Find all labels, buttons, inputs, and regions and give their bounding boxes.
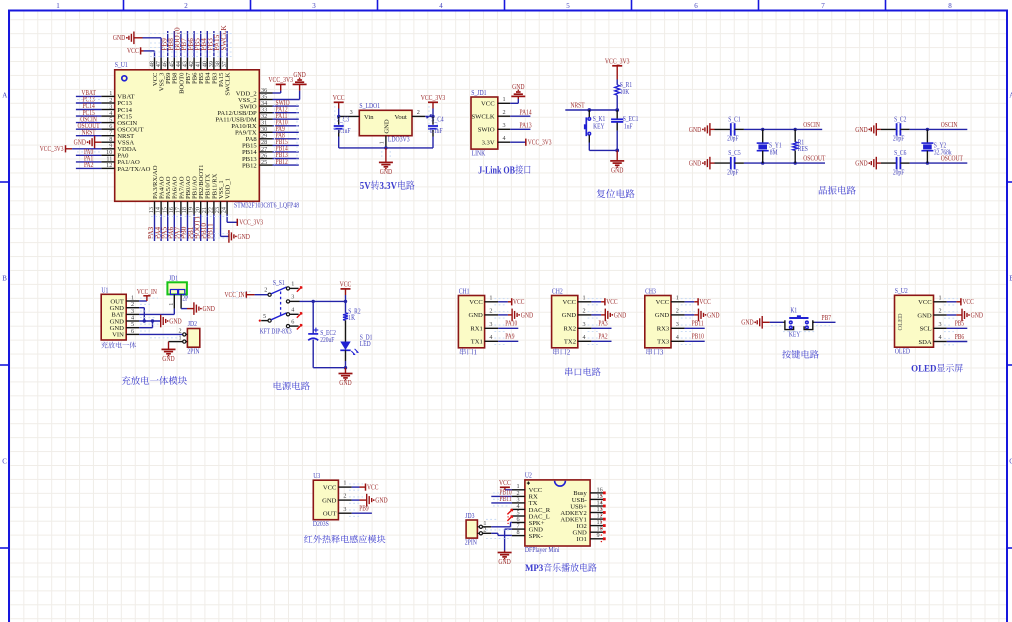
net label PB5 (193, 38, 201, 51)
IC S_LDO1 LDO3V3 body (359, 110, 412, 135)
value KEY (789, 332, 800, 339)
U1 pin 35 VSS_2 (238, 93, 273, 104)
svg-text:S_C2: S_C2 (894, 116, 907, 123)
svg-text:2: 2 (264, 287, 267, 294)
designator S_R2 (348, 309, 361, 316)
S1 pin 5 (261, 313, 268, 321)
U1 charge pin 5 GND (110, 321, 139, 332)
U1 pin 40 PB4 (201, 58, 211, 84)
wire PB8 (173, 31, 175, 58)
svg-text:GND: GND (322, 497, 337, 504)
value 2PIN MP3 (465, 539, 477, 547)
wire VCC_3V3 stem (432, 102, 434, 116)
net label PA9 (505, 334, 515, 341)
designator S_D1 (360, 335, 373, 342)
svg-text:CH3: CH3 (645, 287, 656, 295)
svg-text:LINK: LINK (472, 149, 486, 157)
svg-text:U2: U2 (525, 472, 532, 480)
power label VCC_IN (225, 291, 247, 299)
svg-text:S_R1: S_R1 (620, 82, 632, 89)
snap dashes power (232, 292, 252, 299)
designator S_LDO1 (359, 102, 380, 110)
svg-text:6: 6 (694, 2, 698, 10)
U2 OLED pin 2 GND (917, 308, 946, 320)
svg-text:VCC: VCC (699, 299, 711, 306)
U2 pin 2 RX (512, 490, 538, 501)
net label PA13 (520, 122, 533, 129)
wire Vout to VCC_3V3 node (425, 114, 434, 118)
designator JD3 (465, 512, 475, 520)
svg-text:GND: GND (162, 355, 174, 363)
wire PC14 (76, 109, 101, 111)
svg-text:8: 8 (516, 529, 519, 536)
svg-text:2: 2 (502, 109, 505, 116)
svg-text:1: 1 (178, 335, 181, 342)
no-connect S1 pin1 (297, 286, 302, 291)
value KFT DIP-8X3 (260, 328, 292, 335)
U2 pin 3 TX (512, 496, 538, 507)
svg-text:1: 1 (291, 280, 294, 287)
no-connect U2 pin 12 (601, 518, 606, 523)
svg-text:4: 4 (489, 334, 492, 341)
wire PB12 (273, 164, 299, 166)
ground S_C5 (689, 157, 710, 170)
wire PA10 (498, 327, 518, 329)
LDO pin 3 Vin (339, 109, 359, 116)
svg-text:GND: GND (855, 126, 867, 134)
LDO pin 2 Vout (412, 109, 425, 116)
wire PB6 (947, 341, 968, 343)
svg-text:JD1: JD1 (169, 274, 179, 282)
U1 pin 7 NRST (101, 130, 134, 141)
designator S_EC2 (320, 330, 336, 337)
no-connect U2 pin 9 (601, 537, 606, 542)
S1 pin 2 number (264, 287, 267, 294)
designator K1 (790, 308, 797, 315)
snap dashes U1 right (275, 104, 298, 167)
wire U3 GND (352, 499, 367, 501)
svg-text:20pF: 20pF (727, 169, 739, 176)
title charge module (122, 376, 187, 385)
JD3 pin 2 (477, 526, 486, 535)
no-connect U2 pin 13 (601, 511, 606, 516)
net label OSCOUT (78, 123, 101, 130)
U1 pin 14 PA4/AO (155, 176, 166, 214)
svg-text:JD3: JD3 (465, 512, 475, 520)
wire VCC stem (345, 289, 347, 302)
U1 pin 32 PA11/USB/DM (215, 113, 272, 124)
wire PB14 (273, 151, 299, 153)
U1 pin 45 PB8 (168, 58, 178, 84)
svg-text:PB11: PB11 (207, 223, 215, 239)
svg-text:PA2/TX/AO: PA2/TX/AO (117, 166, 150, 173)
wire PA6 (173, 215, 175, 242)
value serial 1 (460, 348, 478, 356)
designator S_C2 (894, 116, 907, 123)
title crystal circuit (819, 186, 856, 195)
ground MP3 (498, 553, 512, 567)
svg-text:2: 2 (178, 328, 181, 335)
U1 pin 30 PA9/TX (235, 126, 273, 137)
value 32.768k (934, 149, 952, 156)
svg-text:VCC: VCC (962, 299, 974, 306)
svg-text:VCC_IN: VCC_IN (137, 289, 157, 296)
svg-text:MP3: MP3 (525, 563, 544, 573)
svg-text:GND: GND (917, 312, 932, 319)
wire PB11 (213, 215, 215, 242)
snap dashes U1 left (77, 100, 101, 152)
U1 pin 15 PA5/AO (161, 176, 172, 214)
ground at U1 pin 8 (74, 136, 95, 149)
U2 pin 14 USB+ (570, 499, 603, 510)
designator S_U1 (115, 61, 129, 69)
svg-text:VCC: VCC (127, 47, 139, 55)
svg-text:VCC_3V3: VCC_3V3 (421, 94, 446, 102)
U1 pin 37 SWCLK (221, 58, 231, 96)
net label PC13 (82, 97, 95, 104)
svg-text:PA10: PA10 (505, 321, 518, 328)
designator S_C4 (431, 117, 444, 124)
svg-text:9: 9 (597, 532, 600, 539)
ground S_C6 (855, 157, 876, 170)
net label PC14 (82, 103, 95, 110)
svg-text:1: 1 (489, 294, 492, 301)
svg-text:2: 2 (938, 308, 941, 315)
designator S_S1 (273, 280, 285, 287)
power symbol VCC (333, 94, 345, 102)
net label PB6 (955, 334, 965, 341)
svg-text:OLED: OLED (895, 347, 910, 355)
designator U3 (313, 472, 320, 480)
U1 charge pin 2 GND (110, 301, 139, 312)
U1 pin 28 PB15 (242, 139, 272, 150)
wire PA1 (76, 161, 101, 163)
svg-text:0.1uF: 0.1uF (338, 128, 351, 135)
key S_K1 KEY (584, 110, 591, 143)
designator U2 (525, 472, 532, 480)
value 20pF (893, 136, 905, 143)
CH3 pin 3 RX3 (657, 321, 685, 333)
title 5V to 3.3V (360, 180, 415, 192)
value 20pF (893, 169, 905, 176)
ground reset (610, 161, 624, 175)
svg-text:4: 4 (938, 334, 941, 341)
ground LDO (379, 162, 393, 176)
value KEY (593, 123, 604, 130)
svg-text:7: 7 (821, 2, 825, 10)
svg-text:RX1: RX1 (470, 326, 482, 333)
svg-text:JD2: JD2 (188, 320, 198, 328)
wire PB11 (685, 327, 705, 329)
CH1 pin 1 VCC (469, 294, 498, 306)
net label PA6 (167, 226, 175, 239)
wire PB9 (352, 512, 372, 514)
net label PB9 (359, 506, 369, 513)
U2 OLED pin 4 SDA (918, 334, 946, 346)
value 2P (182, 295, 188, 302)
U1 pin 13 PA3/RX/AO (148, 165, 159, 214)
svg-text:S_K1: S_K1 (593, 116, 606, 123)
wire JD1 pin2 to ground (181, 308, 187, 310)
net label SWIO (276, 100, 290, 107)
svg-text:GND: GND (113, 34, 125, 42)
value DFPlayer Mini (525, 546, 560, 554)
wire U3 VCC (352, 486, 366, 488)
svg-text:12: 12 (106, 162, 112, 169)
svg-text:4: 4 (502, 135, 505, 142)
wire PB1 (193, 215, 195, 242)
designator S_EC1 (623, 116, 639, 123)
svg-text:25: 25 (261, 159, 267, 166)
power label VCC_IN charge (137, 289, 157, 296)
U1 pin 21 PB10/TX (201, 173, 212, 214)
snap dashes U1 top (150, 34, 233, 57)
svg-text:RES: RES (798, 146, 808, 153)
net label PA3 (598, 321, 608, 328)
wire switch out (300, 300, 348, 303)
ground right of U1 (293, 71, 307, 85)
wire PB5 (947, 327, 968, 329)
wire PA15 (220, 31, 222, 58)
wire VCC to U1 pin 48 (141, 51, 155, 58)
wire PB9 (167, 31, 169, 58)
svg-text:VCC: VCC (562, 299, 576, 306)
net label PA10 (276, 120, 289, 127)
U1 pin 23 VSS_1 (214, 180, 225, 214)
JD2 pin 2 (178, 328, 187, 337)
svg-text:S_C6: S_C6 (894, 150, 907, 157)
svg-text:24: 24 (221, 207, 228, 213)
wire SWIO (273, 105, 299, 107)
svg-text:2: 2 (567, 348, 571, 356)
wire CH2 VCC (591, 301, 605, 303)
U1 pin 17 PA7/AO (175, 176, 186, 214)
wire OLED GND (947, 314, 962, 316)
wire PA3 (154, 215, 156, 242)
power label VCC U3 (366, 484, 379, 492)
CH1 pin 2 GND (469, 308, 499, 320)
svg-text:LED: LED (360, 341, 371, 348)
no-connect U2 pin 10 (601, 531, 606, 536)
svg-text:VCC_3V3: VCC_3V3 (40, 146, 64, 153)
net label PB0 (180, 226, 188, 239)
wire PA9 (498, 340, 518, 342)
value LED (360, 341, 371, 348)
designator S_C6 (894, 150, 907, 157)
ground OLED (962, 309, 983, 322)
net label OSCOUT right (941, 156, 964, 163)
wire K1 to ground rail (589, 143, 619, 153)
wire PA2 (76, 167, 101, 169)
svg-text:0.1uF: 0.1uF (430, 128, 443, 135)
wire PA14 (510, 115, 530, 117)
power symbol VCC MP3 (499, 479, 511, 487)
svg-text:VCC_3V3: VCC_3V3 (268, 76, 293, 84)
IC U3 D203S body (313, 480, 338, 520)
snap dashes CH1 (494, 299, 508, 345)
net label OSCIN (803, 122, 820, 129)
U1 pin 48 VCC (149, 58, 159, 87)
designator S_Y2 (934, 143, 947, 150)
U1 pin 34 SWIO (240, 100, 273, 111)
U1 pin 22 PB11/RX (208, 173, 219, 214)
IC U1 STM32F103C8T6_LQFP48 body (115, 70, 260, 202)
value OLED (895, 347, 910, 355)
value 10K (620, 89, 630, 96)
connector S_JD1 LINK body (471, 97, 498, 149)
power label VCC CH2 (605, 298, 618, 306)
svg-text:U1: U1 (101, 286, 108, 294)
crystal S_Y2 32.768k (921, 129, 933, 163)
U2 pin 13 ADKEY2 (560, 506, 603, 517)
power label VCC CH3 (698, 298, 711, 306)
svg-text:RX3: RX3 (657, 326, 670, 333)
value 220uF (320, 337, 334, 344)
power label VCC_3V3 bottom (237, 219, 263, 227)
svg-text:S_U2: S_U2 (895, 287, 909, 295)
no-connect DAC_R (507, 509, 512, 518)
U1 pin 29 PA8 (246, 133, 273, 144)
net label SWCLK (220, 25, 228, 51)
svg-text:20pF: 20pF (893, 169, 905, 176)
wire bottom rail power (313, 366, 347, 369)
svg-text:PA14: PA14 (520, 109, 533, 116)
svg-text:3.3V: 3.3V (380, 180, 398, 192)
U2 OLED pin 3 SCL (920, 321, 947, 333)
designator U1 (101, 286, 108, 294)
svg-text:GND: GND (375, 497, 387, 505)
wire gnd to key (762, 321, 783, 323)
wire PB7 (187, 31, 189, 58)
svg-text:K1: K1 (790, 308, 797, 315)
U2 pin 10 GND (573, 526, 604, 537)
snap dashes charge (140, 298, 178, 338)
power label VCC_3V3 at U1 pin 9 (40, 145, 66, 153)
U1 pin 41 PB5 (195, 58, 205, 84)
ground power circuit (339, 374, 353, 388)
wire OLED VCC (947, 301, 961, 303)
svg-text:SWCLK: SWCLK (225, 72, 232, 95)
svg-text:B: B (2, 275, 7, 283)
svg-text:GND: GND (689, 126, 701, 134)
svg-text:4: 4 (676, 334, 679, 341)
power label VCC OLED (961, 298, 974, 306)
svg-text:S_C1: S_C1 (728, 116, 740, 123)
value serial 2 (553, 348, 571, 356)
U1 pin 39 PB3 (208, 58, 218, 84)
U1 charge pin 1 OUT (110, 295, 139, 306)
snap dashes CH3 (681, 299, 695, 345)
connector JD1 2P body (167, 282, 187, 294)
net label PB4 (200, 38, 208, 51)
wire OUT to VCC_IN (139, 296, 147, 301)
resistor R1 RES (793, 129, 798, 163)
wire rail to ground (345, 368, 347, 374)
ground CH2 (605, 309, 626, 322)
no-connect DAC_L (507, 516, 512, 525)
net label PB15 (276, 139, 289, 146)
wire OSCOUT right (900, 161, 967, 164)
power label VCC_3V3 JD1 (526, 139, 552, 147)
ground S_C2 (855, 123, 876, 136)
U1 pin 31 PA10/RX (231, 120, 272, 131)
svg-text:GND: GND (293, 71, 305, 79)
wire JD3 pin1 to SPK+ (483, 522, 512, 526)
svg-text:4: 4 (439, 2, 443, 10)
JD1 pin 1 VCC (481, 96, 510, 107)
svg-text:10K: 10K (620, 89, 630, 96)
net label OSCIN (80, 116, 97, 123)
value 20pF (727, 136, 739, 143)
CH3 pin 4 TX3 (657, 334, 684, 346)
net label PA3 (147, 226, 155, 239)
U1 charge pin 3 BAT (111, 308, 139, 319)
ground bottom of U1 (229, 230, 250, 243)
svg-text:PA9: PA9 (505, 334, 515, 341)
LDO pin 1 GND (379, 136, 388, 150)
wire PB10 (685, 340, 705, 342)
designator S_JD1 (471, 89, 487, 97)
svg-text:1uF: 1uF (624, 123, 633, 130)
svg-text:6: 6 (131, 328, 134, 335)
svg-text:VCC: VCC (340, 281, 352, 289)
U1 pin 33 PA12/USB/DP (217, 107, 272, 118)
net label OSCOUT (803, 156, 826, 163)
svg-text:GND: GND (741, 319, 753, 327)
svg-text:PB12: PB12 (276, 159, 289, 166)
wire PA11 (273, 118, 299, 120)
wire PA4 (160, 215, 162, 242)
resistor S_R1 10K (615, 85, 620, 95)
U1 pin 42 PB6 (188, 58, 198, 84)
net label PB11 (207, 223, 215, 239)
wire VCC_IN to switch (246, 294, 268, 296)
wire PB10 (206, 215, 208, 242)
CH1 pin 4 TX1 (471, 334, 498, 346)
no-connect S1 pin6 (297, 324, 302, 329)
wire VDD_1 to VCC_3V3 (227, 215, 237, 223)
wire gnd to S_C5 (710, 162, 731, 164)
svg-text:NRST: NRST (571, 103, 586, 110)
wire gnd to S_C1 (710, 128, 731, 130)
svg-text:SDA: SDA (918, 339, 931, 346)
wire OSCOUT left (735, 161, 825, 164)
U1 charge pin 6 VIN (112, 328, 139, 339)
wire PA2 (591, 340, 611, 342)
wire NRST (565, 108, 617, 112)
net label PA8 (276, 133, 286, 140)
svg-text:3: 3 (660, 348, 664, 356)
designator CH1 (459, 287, 470, 295)
svg-text:2P: 2P (182, 295, 188, 302)
U1 pin 19 PB1/AO (188, 176, 199, 214)
wire JD2 pin1 to ground (169, 342, 183, 350)
net label PA5 (160, 226, 168, 239)
wire CH2 GND (591, 314, 605, 316)
U1 pin 8 VSSA (101, 136, 134, 147)
node Vin (337, 115, 340, 118)
title OLED display (911, 363, 963, 373)
svg-text:VCC: VCC (499, 479, 511, 487)
svg-text:OSCIN: OSCIN (941, 122, 958, 129)
no-connect U2 pin 14 (601, 505, 606, 510)
wire VCC to R2 (345, 301, 347, 313)
ground JD1 (511, 83, 525, 97)
svg-text:TX2: TX2 (564, 339, 576, 346)
IC U1 charge module body (101, 294, 126, 340)
net label PA9 (276, 126, 286, 133)
U1 pin 47 VSS_3 (155, 58, 165, 92)
